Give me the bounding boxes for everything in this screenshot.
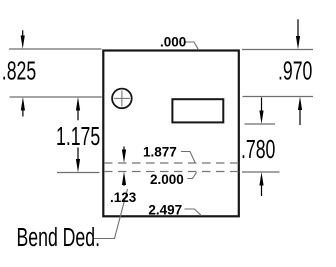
svg-text:2.497: 2.497	[148, 203, 182, 218]
svg-text:.000: .000	[160, 35, 186, 50]
svg-text:.780: .780	[241, 135, 275, 164]
svg-text:2.000: 2.000	[150, 172, 184, 187]
svg-text:.825: .825	[2, 56, 36, 85]
svg-text:.123: .123	[110, 190, 137, 205]
svg-text:Bend Ded.: Bend Ded.	[17, 223, 100, 252]
svg-text:.970: .970	[278, 56, 312, 85]
svg-text:1.877: 1.877	[143, 145, 177, 160]
svg-text:1.175: 1.175	[56, 122, 100, 151]
